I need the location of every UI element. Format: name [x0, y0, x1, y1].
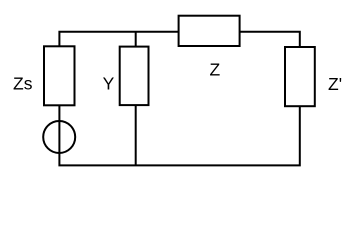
svg-text:Y: Y	[103, 74, 115, 94]
svg-text:Zs: Zs	[13, 74, 33, 94]
svg-text:Z: Z	[210, 60, 221, 80]
svg-text:Z': Z'	[328, 74, 342, 94]
